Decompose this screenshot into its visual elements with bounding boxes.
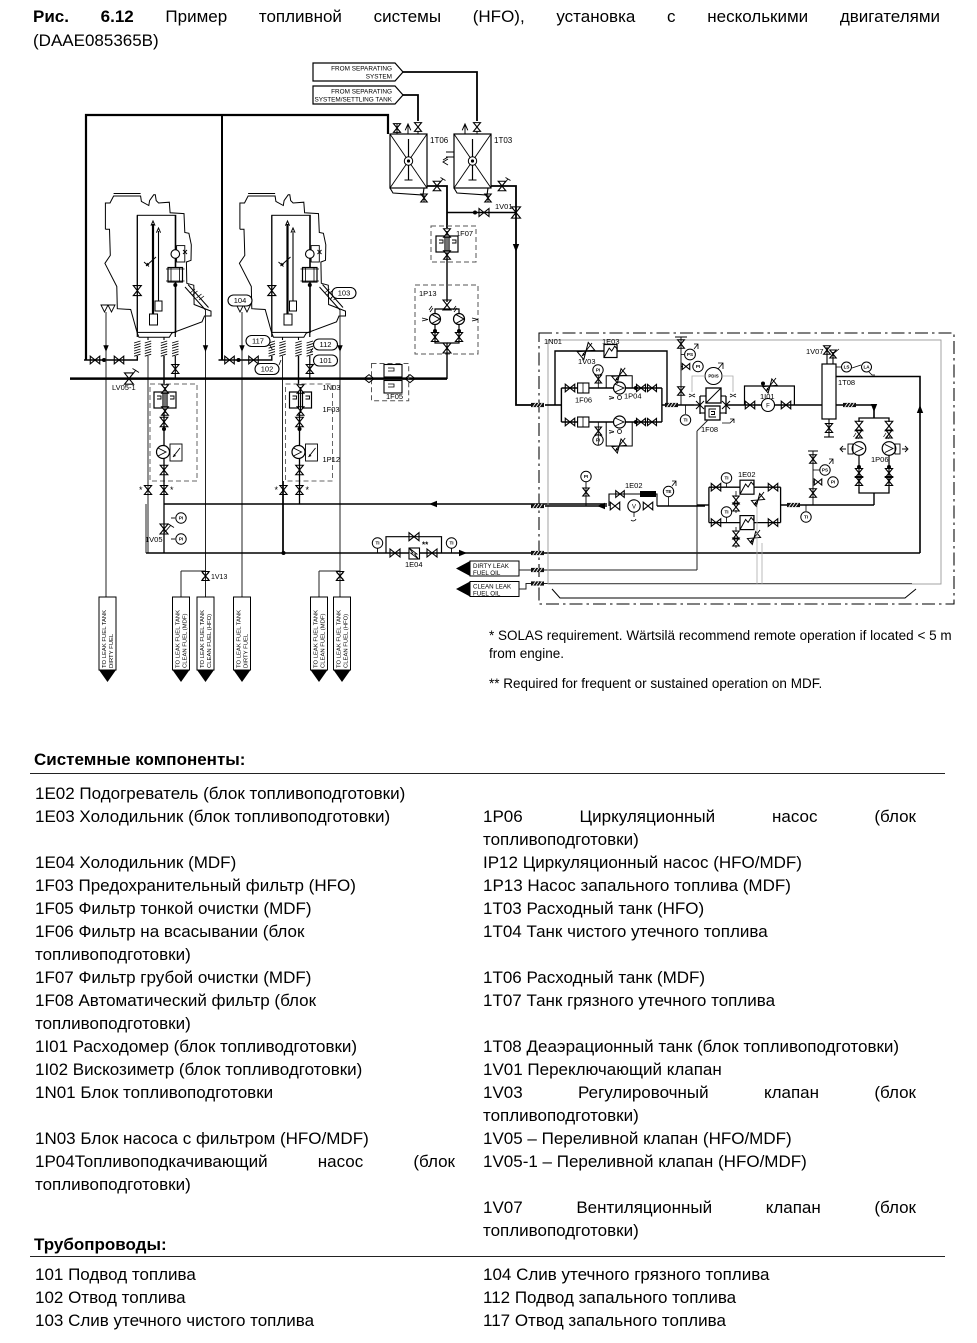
node label 117 [246, 336, 273, 351]
svg-text:103: 103 [338, 289, 351, 298]
arrow flow to unit on return line [459, 550, 467, 556]
valve 1T06 outlet [433, 178, 445, 191]
svg-text:112: 112 [320, 340, 332, 349]
gauge TI before 1E04 [372, 538, 382, 553]
svg-text:PDIS: PDIS [708, 374, 718, 379]
svg-text:V: V [632, 505, 636, 511]
unit 1N01 boundary [539, 333, 954, 604]
svg-text:1N01: 1N01 [544, 337, 562, 346]
svg-text:PS: PS [687, 352, 693, 357]
gauge TI on pump outlet [801, 505, 811, 522]
svg-text:1E02: 1E02 [625, 481, 643, 490]
pump unit 1P13 pilot fuel pumps [415, 285, 478, 354]
vent symbol engine 2 [237, 305, 251, 597]
svg-text:DIRTY FUEL: DIRTY FUEL [109, 633, 115, 668]
banner TO LEAK FUEL TANK DIRTY FUEL engine2 [234, 597, 251, 682]
svg-text:PS: PS [822, 468, 828, 473]
valve 1V13 leak drain [181, 571, 227, 581]
svg-text:SYSTEM/SETTLING TANK: SYSTEM/SETTLING TANK [314, 97, 392, 104]
gauge PI upper [171, 513, 186, 523]
svg-text:1V03: 1V03 [578, 357, 596, 366]
banner FROM SEPARATING SYSTEM [313, 63, 403, 81]
svg-text:1E02: 1E02 [738, 470, 756, 479]
svg-text:1F07: 1F07 [456, 229, 473, 238]
valve 1T03 outlet [498, 178, 510, 191]
arrow engine 1 drain [203, 345, 208, 352]
bypass valve 1V03 and cooler 1E03 [555, 337, 667, 405]
flow meter 1I01 [726, 378, 824, 412]
gauge TI after 1F08 [680, 405, 690, 425]
svg-text:PI: PI [831, 480, 835, 485]
pipe 1T06 outlet [427, 186, 447, 228]
banner TO LEAK FUEL TANK CLEAN FUEL (MDF) engine2 [311, 597, 328, 682]
svg-text:1V05: 1V05 [145, 535, 163, 544]
svg-text:DIRTY FUEL: DIRTY FUEL [244, 633, 250, 668]
unit drip tray [552, 589, 916, 598]
valves below pump unit 2 [275, 481, 310, 553]
pipe clean leak fuel oil [519, 584, 912, 590]
node label 102 [255, 360, 281, 375]
svg-text:TI: TI [375, 541, 379, 546]
svg-text:TO LEAK FUEL TANK: TO LEAK FUEL TANK [200, 610, 206, 668]
banner TO LEAK FUEL TANK CLEAN FUEL (HFO) engine1 [197, 597, 214, 682]
pipe from separating system to tank 1T03 [403, 72, 477, 121]
svg-text:1T03: 1T03 [494, 136, 513, 145]
cooler 1E04 MDF [386, 533, 442, 569]
pump unit 1P06 circulation pumps [840, 418, 908, 505]
svg-text:LA: LA [863, 365, 870, 370]
gauge PI lower [171, 534, 186, 544]
svg-text:PI: PI [696, 364, 700, 369]
svg-text:LV05-1: LV05-1 [112, 383, 136, 392]
pipe MDF return via 1E04 [146, 504, 920, 553]
valve 1V01 changeover [447, 202, 521, 218]
node label 101 [311, 355, 338, 368]
svg-text:104: 104 [234, 296, 247, 305]
pipe 1T08 outlet to pumps [836, 403, 877, 418]
svg-text:TI: TI [724, 476, 728, 481]
tank 1T08 deaeration [806, 346, 875, 437]
viscosimeter 1I02 and MDF heater 1E02 [531, 471, 705, 521]
svg-text:*: * [275, 485, 279, 495]
pipe unit suction line [531, 403, 561, 407]
svg-text:DIRTY LEAK: DIRTY LEAK [473, 563, 510, 570]
svg-text:1F08: 1F08 [701, 425, 718, 434]
engine 1 [105, 194, 211, 341]
svg-text:1P04: 1P04 [624, 392, 642, 401]
svg-text:TO LEAK FUEL TANK: TO LEAK FUEL TANK [102, 610, 108, 668]
svg-text:PI: PI [584, 474, 588, 479]
svg-text:1E03: 1E03 [602, 337, 620, 346]
valves below pump unit 1 [139, 481, 174, 553]
svg-text:PI: PI [179, 516, 183, 521]
svg-text:TE: TE [666, 489, 672, 494]
svg-text:*: * [306, 485, 310, 495]
svg-text:CLEAN FUEL (MDF): CLEAN FUEL (MDF) [183, 614, 189, 668]
svg-text:1E04: 1E04 [405, 560, 423, 569]
svg-text:TI: TI [449, 541, 453, 546]
tank 1T03 top fittings [462, 123, 480, 134]
engine 1 supply and drain pipes [84, 310, 206, 597]
riser PS PI near heaters [808, 451, 838, 505]
vent riser with PS PI [675, 337, 703, 405]
svg-text:1F05: 1F05 [386, 392, 403, 401]
svg-text:LS: LS [844, 365, 850, 370]
svg-text:1N03: 1N03 [323, 383, 341, 392]
pump unit engine 1 (pump with filter) [150, 384, 197, 481]
svg-text:1V01: 1V01 [495, 202, 513, 211]
banner TO LEAK FUEL TANK CLEAN FUEL (HFO) engine2 [334, 597, 351, 682]
pipe leak lines inside unit [531, 551, 544, 586]
svg-text:**: ** [422, 541, 429, 550]
tank 1T03 HFO day tank [443, 134, 513, 195]
pipe clean leak lines engine2 [319, 571, 344, 597]
banner DIRTY LEAK FUEL OIL [456, 561, 519, 577]
arrow engine 2 drain [337, 310, 342, 597]
svg-text:1P13: 1P13 [419, 289, 437, 298]
heaters 1E02 HFO [697, 470, 781, 584]
svg-text:FUEL OIL: FUEL OIL [473, 570, 501, 577]
svg-text:*: * [170, 485, 174, 495]
pipe engine 2 supply branch [221, 115, 223, 360]
valve 1T03 drain [485, 194, 491, 202]
pump unit 1N03 with filter 1F03 and pump 1P12 [286, 383, 341, 481]
gauge TI after 1E04 [446, 538, 456, 553]
svg-text:CLEAN LEAK: CLEAN LEAK [473, 584, 512, 591]
svg-text:TO LEAK FUEL TANK: TO LEAK FUEL TANK [237, 610, 243, 668]
pipe 102 fuel return header [70, 377, 447, 380]
pipe return line to unit [164, 501, 607, 555]
banner CLEAN LEAK FUEL OIL [456, 582, 519, 598]
pipe suction to 1F08 [662, 403, 694, 407]
svg-text:1P06: 1P06 [871, 455, 889, 464]
svg-text:TO LEAK FUEL TANK: TO LEAK FUEL TANK [176, 610, 182, 668]
banner TO LEAK FUEL TANK DIRTY FUEL engine1 [99, 597, 116, 682]
pipe 101 fuel supply header [86, 115, 388, 360]
svg-text:117: 117 [252, 337, 264, 346]
valve 1V05-1 overflow [112, 369, 139, 393]
pipe 1V05 overflow branch [145, 504, 174, 553]
svg-text:SYSTEM: SYSTEM [366, 74, 392, 81]
svg-text:CLEAN FUEL (HFO): CLEAN FUEL (HFO) [207, 614, 213, 668]
svg-text:1V13: 1V13 [211, 574, 227, 581]
valve 1T06 drain [421, 194, 427, 202]
pipe 1F07 to 1P13 [446, 257, 448, 302]
engine 2 supply and drain pipes [219, 310, 341, 553]
svg-text:1P12: 1P12 [323, 455, 341, 464]
tank 1T06 MDF day tank [390, 134, 449, 195]
svg-text:FUEL OIL: FUEL OIL [473, 591, 501, 598]
filter 1F08 automatic [689, 363, 736, 434]
vent symbol engine 1 [101, 305, 115, 597]
svg-text:FROM SEPARATING: FROM SEPARATING [331, 66, 392, 73]
svg-text:TI: TI [804, 515, 808, 520]
banner TO LEAK FUEL TANK CLEAN FUEL (MDF) engine1 [173, 597, 190, 682]
banner FROM SEPARATING SYSTEM/SETTLING TANK [313, 86, 403, 104]
arrow flow down to unit [513, 244, 519, 252]
svg-text:PI: PI [596, 368, 600, 373]
svg-text:1T08: 1T08 [838, 378, 855, 387]
svg-text:102: 102 [261, 365, 274, 374]
svg-text:CLEAN FUEL (HFO): CLEAN FUEL (HFO) [344, 614, 350, 668]
svg-text:PI: PI [179, 537, 183, 542]
svg-text:FROM SEPARATING: FROM SEPARATING [331, 89, 392, 96]
svg-text:1T06: 1T06 [430, 136, 449, 145]
node label 104 [228, 295, 252, 306]
svg-text:F: F [766, 404, 770, 410]
pipe 103 clean leak line MDF engine1 [180, 571, 182, 597]
pipe 1P13 to main line [446, 354, 448, 379]
node label 112 [311, 339, 338, 352]
svg-text:TI: TI [724, 510, 728, 515]
svg-text:TO LEAK FUEL TANK: TO LEAK FUEL TANK [314, 610, 320, 668]
filter 1F06 and pumps 1P04 suction branches [561, 365, 662, 453]
svg-text:CLEAN FUEL (MDF): CLEAN FUEL (MDF) [321, 614, 327, 668]
filter 1F05 MDF fine filter [364, 364, 415, 402]
svg-text:101: 101 [319, 356, 332, 365]
svg-text:*: * [139, 485, 143, 495]
svg-text:1F06: 1F06 [575, 396, 592, 405]
engine 2 [239, 194, 345, 341]
svg-text:TO LEAK FUEL TANK: TO LEAK FUEL TANK [337, 610, 343, 668]
pipe dirty leak fuel oil [519, 431, 697, 570]
svg-text:TI: TI [683, 418, 687, 423]
pipe 1T08 top return loop [836, 377, 923, 554]
filter 1F07 MDF coarse filter [431, 226, 476, 262]
pipe 1T03 outlet [491, 186, 531, 405]
svg-text:1V07: 1V07 [806, 347, 824, 356]
svg-text:1I01: 1I01 [760, 392, 775, 401]
node label 103 [330, 288, 356, 301]
svg-text:1F03: 1F03 [323, 405, 340, 414]
pipe from settling tank to tank 1T06 [403, 95, 418, 121]
tank 1T06 top fittings [394, 123, 422, 134]
pipe pumps to heaters [781, 503, 874, 507]
